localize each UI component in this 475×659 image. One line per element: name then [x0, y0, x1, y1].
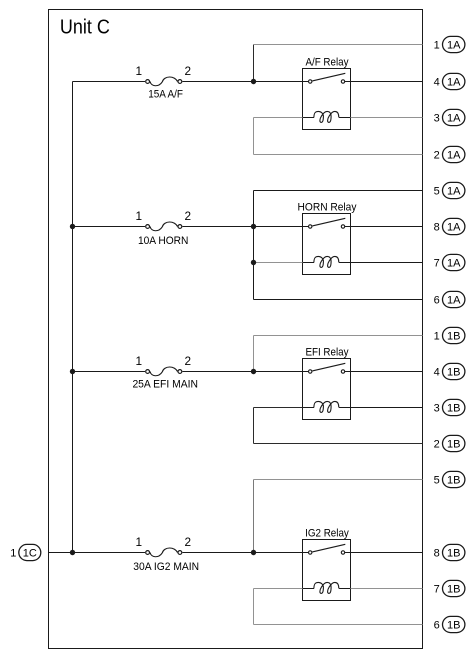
wire: IG2 relay switch output to right edge (pin row): [345, 552, 422, 554]
fuse F3 25A EFI MAIN: [146, 367, 182, 376]
wire: A/F coil return horizontal to pin row: [254, 154, 423, 156]
svg-text:1A: 1A: [447, 40, 461, 52]
pin 6 of connector 1A (row y=299.5): [434, 291, 465, 307]
junction: EFI fuse output node: [251, 369, 256, 374]
svg-text:1A: 1A: [447, 258, 461, 270]
pin 4 of connector 1A (row y=81.5): [434, 73, 465, 89]
svg-text:Unit C: Unit C: [60, 17, 110, 39]
relay K4 IG2 Relay: [303, 540, 351, 601]
svg-text:1B: 1B: [447, 367, 460, 379]
wire: HORN fuse feed line from bus to fuse terminal 1: [73, 226, 146, 228]
wire: EFI top branch vertical: [253, 336, 255, 372]
wire: HORN branch bus vertical (pins 5/6 feed): [253, 191, 255, 300]
fuse F1 15A A/F: [146, 77, 182, 86]
pin 3 of connector 1A (row y=117.5): [434, 109, 465, 125]
pin 8 of connector 1A (row y=226.5): [434, 218, 465, 234]
svg-text:1: 1: [136, 354, 143, 368]
svg-text:5: 5: [434, 186, 440, 198]
svg-text:6: 6: [434, 295, 440, 307]
svg-text:1: 1: [136, 64, 143, 78]
enclosure: Unit C relay box outline: [49, 10, 423, 649]
svg-text:EFI Relay: EFI Relay: [305, 346, 348, 358]
pin 6 of connector 1B (row y=624.5): [434, 616, 465, 632]
wire: EFI fuse output line from terminal 2 to relay switch: [182, 371, 308, 373]
pin 5 of connector 1B (row y=479.5): [434, 471, 465, 487]
fuse F2 10A HORN: [146, 222, 182, 231]
wire: IG2 top branch vertical: [253, 480, 255, 553]
svg-text:15A A/F: 15A A/F: [148, 89, 183, 101]
relay K1 A/F Relay: [303, 69, 351, 130]
wire: HORN bottom branch to pin 6: [254, 299, 423, 301]
wire: A/F relay coil left lead: [254, 117, 303, 119]
svg-text:10A HORN: 10A HORN: [138, 235, 189, 247]
junction: HORN fuse output node: [251, 224, 256, 229]
wire: IG2 coil return vertical: [253, 589, 255, 625]
svg-text:1: 1: [136, 535, 143, 549]
svg-text:7: 7: [434, 584, 440, 596]
pin 8 of connector 1B (row y=552.5): [434, 544, 465, 560]
svg-text:1A: 1A: [447, 295, 461, 307]
wire: A/F relay coil output to pin row: [351, 117, 423, 119]
wire: EFI relay coil left lead: [254, 407, 303, 409]
wire: HORN fuse output line from terminal 2 to relay switch: [182, 226, 308, 228]
junction: IG2 fuse output node: [251, 550, 256, 555]
svg-text:7: 7: [434, 258, 440, 270]
svg-text:1B: 1B: [447, 403, 460, 415]
pin 5 of connector 1A (row y=190.5): [434, 182, 465, 198]
svg-text:1A: 1A: [447, 186, 461, 198]
svg-text:1A: 1A: [447, 150, 461, 162]
relay K2 HORN Relay: [303, 214, 351, 275]
wire: A/F fuse output line from terminal 2 to relay switch: [182, 81, 308, 83]
wire: EFI coil return vertical: [253, 408, 255, 444]
pin 1 of connector 1C (left feed): [10, 544, 41, 560]
svg-text:8: 8: [434, 548, 440, 560]
svg-text:1: 1: [434, 331, 440, 343]
svg-text:1: 1: [10, 548, 16, 560]
wire: EFI fuse feed line from bus to fuse terminal 1: [73, 371, 146, 373]
svg-text:1A: 1A: [447, 113, 461, 125]
wire: IG2 fuse feed line from bus to fuse terminal 1: [73, 552, 146, 554]
wire: A/F coil return vertical: [253, 118, 255, 155]
pin 2 of connector 1B (row y=443.5): [434, 435, 465, 451]
junction: bus tap for HORN fuse: [70, 224, 75, 229]
fuse F4 30A IG2 MAIN: [146, 548, 182, 557]
svg-text:6: 6: [434, 620, 440, 632]
wire: HORN relay coil left stub: [254, 262, 303, 264]
pin 3 of connector 1B (row y=407.5): [434, 399, 465, 415]
svg-text:1B: 1B: [447, 548, 460, 560]
svg-text:A/F Relay: A/F Relay: [305, 56, 348, 68]
junction: A/F fuse output node: [251, 79, 256, 84]
wire: EFI top branch horizontal to pin row: [254, 335, 423, 337]
svg-text:1B: 1B: [447, 439, 460, 451]
wire: HORN relay coil output to pin 7: [351, 262, 423, 264]
svg-text:30A IG2 MAIN: 30A IG2 MAIN: [133, 561, 199, 573]
junction: bus tap for EFI fuse: [70, 369, 75, 374]
svg-text:1C: 1C: [23, 548, 37, 560]
svg-text:5: 5: [434, 475, 440, 487]
pin 7 of connector 1A (row y=262.5): [434, 254, 465, 270]
wire: IG2 coil return horizontal to pin row: [254, 624, 423, 626]
svg-text:1: 1: [136, 209, 143, 223]
svg-text:HORN Relay: HORN Relay: [298, 201, 357, 213]
pin 7 of connector 1B (row y=588.5): [434, 580, 465, 596]
svg-text:4: 4: [434, 77, 440, 89]
wire: HORN relay switch output to right edge (pin row): [345, 226, 422, 228]
svg-text:1B: 1B: [447, 475, 460, 487]
svg-text:4: 4: [434, 367, 440, 379]
wire: EFI relay coil output to pin row: [351, 407, 423, 409]
junction: bus tap for IG2 fuse: [70, 550, 75, 555]
pin 1 of connector 1A (row y=44.5): [434, 36, 465, 52]
svg-text:3: 3: [434, 403, 440, 415]
wire: IG2 relay coil output to pin row: [351, 588, 423, 590]
wire: left feed bus vertical from A/F fuse line down to IG2 fuse line: [72, 82, 74, 553]
svg-text:IG2 Relay: IG2 Relay: [305, 527, 349, 539]
svg-text:2: 2: [434, 439, 440, 451]
wire: IG2 relay coil left lead: [254, 588, 303, 590]
wire: A/F fuse feed line from bus to fuse terminal 1: [73, 81, 146, 83]
svg-text:1B: 1B: [447, 620, 460, 632]
svg-text:2: 2: [434, 150, 440, 162]
relay K3 EFI Relay: [303, 359, 351, 420]
wire: IG2 top branch horizontal to pin row: [254, 479, 423, 481]
svg-text:25A EFI MAIN: 25A EFI MAIN: [132, 379, 198, 391]
svg-text:2: 2: [185, 64, 192, 78]
wire: IG2 fuse output line from terminal 2 to relay switch: [182, 552, 308, 554]
wire: EFI relay switch output to right edge (pin row): [345, 371, 422, 373]
svg-text:1B: 1B: [447, 584, 460, 596]
svg-text:3: 3: [434, 113, 440, 125]
svg-text:1B: 1B: [447, 331, 460, 343]
svg-text:8: 8: [434, 222, 440, 234]
wire: EFI coil return horizontal to pin row: [254, 443, 423, 445]
wire: A/F top branch vertical: [253, 45, 255, 82]
svg-text:2: 2: [185, 209, 192, 223]
pin 4 of connector 1B (row y=371.5): [434, 363, 465, 379]
svg-text:1: 1: [434, 40, 440, 52]
wire: A/F relay switch output to right edge (pin row): [345, 81, 422, 83]
pin 1 of connector 1B (row y=335.5): [434, 327, 465, 343]
pin 2 of connector 1A (row y=154.5): [434, 146, 465, 162]
svg-text:1A: 1A: [447, 222, 461, 234]
svg-text:2: 2: [185, 535, 192, 549]
wire: feed from connector 1C pin 1 into enclosure: [49, 552, 73, 554]
wire: A/F top branch horizontal to pin row: [254, 44, 423, 46]
wire: HORN top branch to pin 5: [254, 190, 423, 192]
junction: HORN coil tap node: [251, 260, 256, 265]
svg-text:1A: 1A: [447, 77, 461, 89]
svg-text:2: 2: [185, 354, 192, 368]
